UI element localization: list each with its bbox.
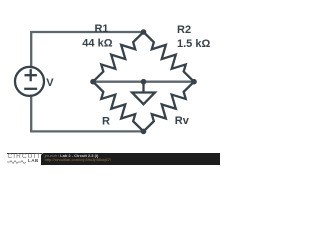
svg-text:R2: R2: [177, 24, 191, 36]
svg-text:Rv: Rv: [175, 115, 190, 127]
svg-text:44 kΩ: 44 kΩ: [82, 38, 112, 50]
svg-text:R1: R1: [94, 23, 108, 35]
svg-text:1.5 kΩ: 1.5 kΩ: [177, 38, 210, 50]
svg-text:V: V: [46, 77, 54, 89]
svg-text:R: R: [102, 116, 110, 128]
